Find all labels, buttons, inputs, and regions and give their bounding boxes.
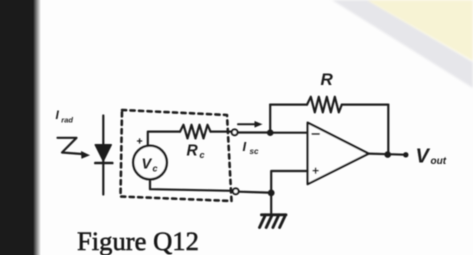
photodiode D1 cathode lead wire (102, 116, 104, 195)
svg-text:Figure Q12: Figure Q12 (77, 226, 199, 255)
wire non-inverting input to ground branch (271, 171, 307, 213)
ground symbol hatching (260, 215, 287, 228)
wire top node to summing junction (238, 131, 268, 133)
bottom output node (open circle) (233, 188, 239, 194)
output wire (369, 154, 405, 155)
left black scan bar (0, 0, 41, 255)
wire junction to op-amp inverting input (270, 132, 308, 134)
top output node (open circle) (232, 129, 238, 135)
svg-text:c: c (153, 164, 158, 174)
feedback wire top left (270, 103, 307, 105)
svg-text:c: c (200, 150, 205, 160)
polarity plus mark (138, 139, 142, 143)
op-amp plus sign (313, 168, 318, 173)
light arrow head (81, 151, 90, 159)
feedback wire right vertical (387, 105, 389, 155)
resistor Rc zigzag (180, 125, 211, 139)
svg-text:rad: rad (61, 116, 73, 125)
page corner gray band (332, 0, 473, 88)
feedback wire top right (342, 103, 389, 105)
junction dot at output (384, 151, 391, 158)
wire Vc bottom to bottom node (150, 180, 233, 191)
photodiode D1 cathode bar (95, 162, 112, 165)
dashed source box (121, 110, 232, 201)
op-amp minus sign (312, 133, 319, 135)
feedback wire left vertical (269, 105, 271, 133)
current arrow Isc (238, 123, 256, 125)
svg-text:V: V (416, 146, 431, 168)
wire bottom node to ground junction (239, 191, 269, 194)
svg-text:R: R (187, 143, 199, 160)
light arrow (irradiation zigzag) (58, 138, 83, 154)
svg-text:V: V (142, 157, 153, 173)
svg-text:R: R (321, 70, 334, 89)
page corner cream triangle (367, 0, 473, 61)
svg-text:out: out (431, 156, 447, 167)
resistor R zigzag (307, 97, 342, 113)
svg-text:sc: sc (250, 147, 259, 156)
junction dot at inverting input (267, 129, 274, 136)
svg-text:I: I (243, 139, 247, 154)
junction dot on ground branch (268, 190, 275, 197)
wire Vc top to Rc (148, 132, 180, 146)
current arrow Isc head (255, 121, 263, 128)
output terminal dot (403, 152, 408, 157)
photodiode D1 triangle (95, 145, 111, 161)
op-amp U1 triangle (308, 123, 369, 185)
voltage source Vc circle (133, 146, 167, 180)
wire Rc to top node (211, 131, 232, 133)
